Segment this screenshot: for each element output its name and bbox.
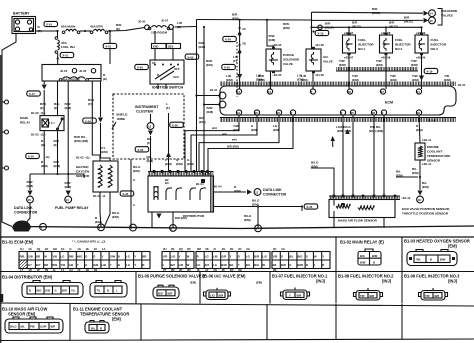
svg-text:IAC: IAC: [323, 55, 329, 59]
wire joint box to main relay coil: [43, 81, 45, 84]
svg-text:CLUSTER: CLUSTER: [136, 110, 153, 114]
svg-text:X-24: X-24: [225, 38, 231, 42]
svg-text:G/B: G/B: [28, 254, 33, 258]
svg-text:R/B: R/B: [69, 254, 74, 258]
svg-text:(E): (E): [116, 27, 120, 31]
svg-text:X-06: X-06: [172, 124, 178, 128]
svg-text:B/Y: B/Y: [36, 263, 41, 267]
wire strip to switch: [154, 49, 156, 61]
svg-text:L/B: L/B: [69, 263, 74, 267]
bus terminal 4: [40, 223, 47, 230]
svg-text:X-19: X-19: [317, 32, 323, 36]
connector X-17 label: [27, 91, 41, 96]
wire IAC to ECM: [312, 71, 314, 89]
wire distributor to data link: [214, 191, 247, 193]
svg-text:B/L: B/L: [273, 263, 278, 267]
svg-text:W: W: [187, 254, 190, 258]
svg-text:(EM): (EM): [301, 78, 308, 82]
svg-text:20: 20: [255, 111, 259, 115]
wire data link to ground: [25, 203, 30, 224]
svg-text:○B1-05: ○B1-05: [272, 73, 282, 77]
connector X-26 label: [304, 204, 318, 209]
svg-text:2K: 2K: [205, 247, 209, 251]
svg-text:G/B: G/B: [45, 289, 50, 293]
fuse 15A ROOM: [148, 26, 170, 30]
svg-text:(EM): (EM): [65, 106, 72, 110]
svg-text:2I: 2I: [213, 247, 216, 251]
svg-text:X-26: X-26: [306, 205, 312, 209]
svg-text:B/L: B/L: [230, 263, 235, 267]
svg-text:Y: Y: [102, 254, 104, 258]
svg-text:1G: 1G: [77, 247, 81, 251]
svg-text:LG: LG: [213, 263, 217, 267]
svg-text:MAIN: MAIN: [20, 116, 29, 120]
svg-text:B/L: B/L: [91, 327, 96, 331]
ECM bottom strip: [220, 117, 456, 119]
svg-text:B1-03 HEATED OXYGEN SENSOR: B1-03 HEATED OXYGEN SENSOR: [404, 239, 470, 244]
connector X-19 label: [424, 68, 438, 73]
injector harness strip: [336, 67, 418, 71]
connector X-24 label: [223, 36, 237, 41]
wire B/L branch: [396, 176, 418, 178]
svg-text:INJECTOR: INJECTOR: [358, 43, 374, 47]
svg-text:B/Y: B/Y: [171, 263, 176, 267]
signal arrow: [331, 136, 335, 141]
svg-text:P/B: P/B: [30, 325, 35, 329]
svg-text:E4D: E4D: [153, 45, 158, 49]
ECM top strip: [220, 82, 456, 87]
svg-text:(EM): (EM): [199, 120, 206, 124]
svg-text:NO.3: NO.3: [431, 47, 439, 51]
svg-text:L: L: [163, 263, 165, 267]
svg-text:LG: LG: [246, 254, 250, 258]
svg-text:1E: 1E: [86, 247, 90, 251]
svg-text:(EM): (EM): [352, 78, 359, 82]
table column dividers: [335, 237, 337, 272]
svg-text:(EM): (EM): [258, 78, 265, 82]
wire to fuel pump relay: [66, 191, 71, 196]
svg-text:2A: 2A: [246, 247, 250, 251]
svg-text:2B3: 2B3: [168, 45, 174, 49]
svg-text:Y/B: Y/B: [61, 263, 66, 267]
svg-text:W/G: W/G: [77, 254, 83, 258]
svg-text:NO.2: NO.2: [395, 47, 403, 51]
svg-text:R: R: [157, 73, 159, 77]
svg-text:B/O: B/O: [37, 289, 43, 293]
svg-text:(EM): (EM): [376, 63, 383, 67]
svg-text:1P: 1P: [36, 268, 40, 272]
svg-text:(EM): (EM): [112, 317, 122, 322]
svg-text:W: W: [262, 263, 265, 267]
svg-text:●B1-11: ●B1-11: [422, 138, 432, 142]
svg-text:(F): (F): [88, 102, 92, 106]
svg-text:●B1-09: ●B1-09: [416, 56, 426, 60]
wire injector3 to ECM: [421, 55, 423, 89]
distributor B1-04: [148, 172, 214, 177]
svg-text:B1-01: B1-01: [210, 88, 218, 92]
svg-text:G: G: [306, 254, 308, 258]
svg-text:WIRE: WIRE: [117, 117, 125, 121]
svg-text:G/W: G/W: [110, 254, 116, 258]
table row divider 1: [0, 271, 474, 273]
svg-text:(INJ2): (INJ2): [404, 19, 413, 23]
connector X-05 label: [222, 64, 236, 69]
svg-text:B/O: B/O: [158, 292, 164, 296]
svg-text:○B1-10: ○B1-10: [401, 196, 411, 200]
connector X-26 label: [120, 191, 134, 196]
svg-text:(EM): (EM): [65, 185, 72, 189]
svg-text:(E): (E): [103, 77, 107, 81]
svg-text:○B1-06: ○B1-06: [315, 73, 325, 77]
svg-text:L: L: [116, 289, 118, 293]
svg-text:G: G: [85, 263, 87, 267]
svg-text:X-05: X-05: [137, 148, 143, 152]
wire relay out left: [43, 131, 45, 174]
svg-text:15: 15: [430, 19, 434, 23]
svg-text:B/R (EM): B/R (EM): [227, 145, 239, 149]
svg-text:80A MAIN: 80A MAIN: [61, 25, 76, 29]
svg-text:B1-02 ○|1|○: B1-02 ○|1|○: [31, 111, 46, 115]
wire B/R ignition to ECM: [196, 20, 198, 172]
instrument cluster shield box: [113, 94, 184, 159]
svg-text:1B: 1B: [94, 268, 98, 272]
svg-text:TEMPERATURE: TEMPERATURE: [427, 154, 450, 158]
svg-text:L/G: L/G: [262, 254, 267, 258]
svg-text:(INJ2): (INJ2): [352, 25, 361, 29]
svg-text:R: R: [100, 327, 102, 331]
svg-text:○ B1-04: ○ B1-04: [200, 172, 211, 176]
svg-text:LG: LG: [197, 263, 201, 267]
svg-text:27: 27: [381, 90, 385, 94]
svg-text:2H: 2H: [213, 268, 217, 272]
svg-text:(EM): (EM): [190, 281, 196, 285]
wire ECM to MAF sensors: [342, 115, 344, 196]
svg-text:14: 14: [237, 90, 241, 94]
wire B/LG to MAF: [311, 168, 334, 196]
svg-text:1T: 1T: [20, 268, 24, 272]
svg-text:(EM): (EM): [226, 78, 233, 82]
bus terminal 5: [130, 224, 137, 231]
svg-text:1K: 1K: [61, 247, 65, 251]
svg-text:RELAY: RELAY: [20, 121, 31, 125]
svg-text:(EM): (EM): [54, 164, 61, 168]
svg-text:Y: Y: [238, 263, 240, 267]
ECM pin table group1: [19, 252, 150, 269]
svg-text:ST: ST: [152, 61, 156, 65]
svg-text:2C: 2C: [238, 247, 242, 251]
svg-text:1U: 1U: [20, 247, 24, 251]
wire to solenoid bottom: [312, 19, 424, 21]
svg-text:(E): (E): [54, 106, 58, 110]
svg-text:DATA LINK: DATA LINK: [263, 188, 282, 192]
svg-text:2E: 2E: [230, 247, 234, 251]
fuse 40A ENGINE: [59, 77, 88, 81]
svg-text:12: 12: [148, 125, 152, 129]
svg-text:B: B: [118, 254, 120, 258]
svg-text:1A: 1A: [102, 247, 106, 251]
svg-text:B: B: [107, 289, 109, 293]
ECM pin table group3: [196, 252, 270, 269]
svg-text:LG: LG: [205, 254, 209, 258]
svg-text:SHIELD: SHIELD: [116, 113, 128, 117]
wire B/LG cluster to ground: [130, 159, 132, 228]
svg-text:(INJ): (INJ): [382, 279, 392, 284]
svg-text:2B: 2B: [238, 268, 242, 272]
svg-text:2P: 2P: [179, 268, 183, 272]
svg-text:(EM): (EM): [187, 162, 194, 166]
svg-text:B1-04 DISTRIBUTOR (EM): B1-04 DISTRIBUTOR (EM): [2, 275, 53, 280]
svg-text:INJECTOR: INJECTOR: [395, 43, 411, 47]
wire B/LG to X-26: [214, 206, 303, 208]
svg-text:G: G: [133, 178, 135, 182]
svg-text:21: 21: [417, 90, 421, 94]
solenoid valves connector: [424, 11, 429, 16]
svg-text:B1-03 ○|1: B1-03 ○|1: [93, 194, 106, 198]
distributor connector A: [22, 281, 83, 298]
ignition switch connector strip: [152, 44, 167, 49]
ECM body: [220, 86, 456, 115]
wire: [80, 30, 92, 32]
svg-text:14: 14: [430, 12, 434, 16]
svg-text:2C: 2C: [273, 247, 277, 251]
svg-text:R/L: R/L: [417, 257, 422, 261]
wire ECT down: [419, 160, 421, 190]
svg-text:15A ROOM: 15A ROOM: [151, 31, 167, 35]
svg-text:(EM): (EM): [147, 159, 154, 163]
injector1 connector: [281, 288, 310, 300]
svg-text:B/R: B/R: [281, 263, 286, 267]
svg-text:(EM): (EM): [311, 165, 318, 169]
svg-text:SOLENOID: SOLENOID: [441, 9, 458, 13]
svg-text:B/O: B/O: [298, 254, 304, 258]
connector X-04 label: [83, 118, 97, 123]
svg-text:24: 24: [268, 90, 272, 94]
svg-text:1C: 1C: [94, 247, 98, 251]
svg-text:L: L: [314, 263, 316, 267]
svg-text:(EM): (EM): [133, 169, 140, 173]
svg-text:HEATED: HEATED: [76, 165, 89, 169]
svg-text:L/B: L/B: [213, 254, 218, 258]
svg-text:INSTRUMENT: INSTRUMENT: [135, 105, 159, 109]
wire purge to ECM: [270, 71, 272, 89]
wire o2 sensor to ground bus: [100, 192, 101, 227]
svg-text:(EM): (EM): [256, 281, 262, 285]
wire 2C 2D vertical: [239, 20, 241, 89]
svg-text:1F: 1F: [77, 268, 81, 272]
svg-text:X-17: X-17: [29, 92, 35, 96]
svg-text:L/O: L/O: [210, 294, 215, 298]
connector X-16 label: [26, 153, 40, 158]
svg-text:2E: 2E: [348, 90, 352, 94]
svg-text:29: 29: [417, 111, 421, 115]
svg-text:FUEL PUMP RELAY: FUEL PUMP RELAY: [55, 206, 89, 210]
wire injector feed bus: [312, 26, 422, 28]
svg-text:L/B: L/B: [102, 263, 107, 267]
svg-text:(INJ2): (INJ2): [389, 25, 398, 29]
svg-text:13: 13: [255, 191, 259, 195]
svg-text:(EM): (EM): [412, 78, 419, 82]
fuel injector no1 B1-07: [348, 27, 350, 35]
wire ECM pin to distributor: [191, 115, 257, 172]
svg-text:A: A: [133, 203, 135, 207]
ignition switch box: [150, 60, 184, 84]
svg-text:Y: Y: [289, 294, 291, 298]
svg-text:CONNECTOR: CONNECTOR: [263, 193, 286, 197]
wire distributor to ground: [151, 212, 153, 228]
svg-text:B1-01 ECM (EM): B1-01 ECM (EM): [2, 240, 34, 245]
wire joint box right to o2 sensor: [92, 81, 100, 161]
wire purge feed: [267, 20, 274, 49]
svg-text:SENSOR (EM): SENSOR (EM): [8, 312, 36, 317]
wire battery left to ground: [2, 34, 16, 227]
ground bus wire: [20, 226, 474, 229]
svg-text:B1-04: B1-04: [214, 185, 222, 189]
svg-text:B: B: [306, 263, 308, 267]
svg-text:O/B: O/B: [93, 263, 98, 267]
svg-text:B/W: B/W: [440, 257, 446, 261]
svg-text:(EM): (EM): [444, 78, 451, 82]
shield wire dashed: [236, 42, 238, 97]
data link connector pin right: [247, 189, 252, 194]
connector X-01 label: [44, 21, 58, 26]
svg-text:X-05: X-05: [187, 55, 193, 59]
svg-text:2B: 2B: [273, 268, 277, 272]
wire injector2 to ECM: [385, 55, 387, 89]
svg-text:ENGINE: ENGINE: [427, 145, 439, 149]
svg-text:18: 18: [418, 198, 422, 202]
svg-text:X-03: X-03: [137, 66, 143, 70]
bus terminal 6: [170, 225, 177, 232]
svg-text:J0-04: J0-04: [60, 69, 68, 73]
svg-text:(EM): (EM): [448, 244, 458, 249]
svg-text:25: 25: [351, 111, 355, 115]
wire bus to room fuse: [108, 28, 145, 32]
svg-text:R/B: R/B: [52, 263, 57, 267]
svg-text:(EM): (EM): [283, 26, 290, 30]
svg-text:B/R: B/R: [370, 294, 375, 298]
svg-text:B/R: B/R: [254, 254, 259, 258]
svg-text:Y/L: Y/L: [71, 289, 76, 293]
svg-text:BR: BR: [36, 254, 40, 258]
svg-text:BR: BR: [44, 263, 48, 267]
svg-text:B: B: [430, 257, 432, 261]
svg-text:R: R: [142, 263, 144, 267]
svg-text:2G: 2G: [222, 247, 226, 251]
svg-text:B/R: B/R: [435, 294, 440, 298]
svg-text:R: R: [322, 263, 324, 267]
svg-text:R: R: [197, 254, 199, 258]
injector2 connector: [354, 288, 383, 300]
wire branch to ECM pin: [197, 95, 220, 97]
ECT connector: [85, 321, 109, 334]
svg-text:2U: 2U: [163, 247, 167, 251]
svg-text:1H: 1H: [69, 268, 73, 272]
svg-text:X-01: X-01: [46, 23, 52, 27]
mass air flow sensor B1-10: [329, 196, 400, 200]
svg-text:Y/B: Y/B: [52, 254, 57, 258]
table row divider 2: [0, 303, 474, 306]
svg-text:wht: wht: [211, 126, 217, 130]
svg-text:(EM): (EM): [112, 215, 119, 219]
svg-text:11: 11: [66, 198, 69, 202]
svg-text:G/R: G/R: [221, 254, 226, 258]
svg-text:B/W: B/W: [221, 263, 227, 267]
svg-text:2D: 2D: [230, 268, 234, 272]
svg-text:B: B: [29, 289, 31, 293]
svg-text:B1-05 PURGE SOLENOID VALVE (E: B1-05 PURGE SOLENOID VALVE (E: [138, 274, 207, 279]
ECM left pins: [219, 92, 226, 99]
svg-text:(EM): (EM): [27, 184, 34, 188]
wire to solenoid top: [311, 12, 313, 20]
svg-text:B/W: B/W: [360, 261, 366, 265]
svg-text:* *...CANADA MTX ( (...,(X: * *...CANADA MTX ( (...,(X: [72, 240, 105, 244]
left edge connector pins: [5, 100, 9, 104]
svg-text:Y/R: Y/R: [163, 254, 168, 258]
engine coolant temp sensor B1-11: [419, 115, 420, 143]
svg-text:○B1-05: ○B1-05: [272, 43, 282, 47]
svg-text:19: 19: [237, 111, 241, 115]
wire to ignition feed: [174, 26, 196, 29]
fuel injector no3 B1-09: [421, 27, 423, 35]
svg-text:GY: GY: [28, 263, 32, 267]
svg-text:MASS AIR FLOW SENSOR: MASS AIR FLOW SENSOR: [338, 219, 378, 223]
svg-text:G: G: [93, 254, 95, 258]
wire joint box to main relay switch: [57, 81, 59, 116]
svg-text:T/L: T/L: [97, 289, 101, 293]
svg-text:X-01: X-01: [62, 54, 68, 58]
svg-text:J0-05: J0-05: [138, 20, 146, 24]
svg-text:(EM): (EM): [232, 16, 239, 20]
svg-text:(INJ2): (INJ2): [325, 25, 334, 29]
ECM pin table group2: [162, 252, 194, 269]
svg-text:○|1|○: ○|1|○: [44, 155, 51, 159]
wire risers to ignition switch: [154, 31, 156, 44]
svg-text:J0-06: J0-06: [79, 69, 87, 73]
svg-text:NO.1: NO.1: [358, 47, 366, 51]
svg-text:(EM): (EM): [412, 171, 419, 175]
svg-text:B/G: B/G: [360, 254, 365, 258]
wire ignition out stubs: [157, 84, 159, 89]
svg-text:(EM): (EM): [207, 110, 214, 114]
svg-text:1R: 1R: [28, 268, 32, 272]
ECM top pins: [236, 89, 241, 94]
svg-text:LG: LG: [126, 254, 130, 258]
svg-text:X-19: X-19: [426, 70, 432, 74]
svg-text:(E): (E): [41, 143, 45, 147]
wire to ground bus circle: [257, 207, 259, 229]
connector X-05 label: [185, 54, 199, 59]
wire: [88, 78, 101, 80]
svg-text:B/R: B/R: [168, 292, 173, 296]
svg-text:(EM): (EM): [251, 128, 258, 132]
svg-text:1N: 1N: [45, 268, 49, 272]
connector X-01 label: [57, 53, 59, 64]
svg-text:(EM): (EM): [244, 218, 251, 222]
svg-text:FUEL: FUEL: [395, 38, 403, 42]
joint box: [42, 65, 101, 82]
svg-text:2R: 2R: [171, 268, 175, 272]
connector X-05 label: [135, 147, 149, 152]
wire ECM pin to distributor: [185, 115, 239, 172]
svg-text:B1-01: B1-01: [428, 119, 436, 123]
svg-text:(EM): (EM): [269, 38, 276, 42]
svg-text:EGR VALVE POSITION SENSOR,: EGR VALVE POSITION SENSOR,: [402, 207, 450, 211]
svg-text:wht: wht: [221, 132, 227, 136]
svg-text:(E): (E): [38, 29, 42, 33]
bus terminal 1: [98, 224, 105, 231]
fuel injector no2 B1-08: [385, 27, 387, 35]
svg-text:INJECTOR: INJECTOR: [431, 43, 447, 47]
